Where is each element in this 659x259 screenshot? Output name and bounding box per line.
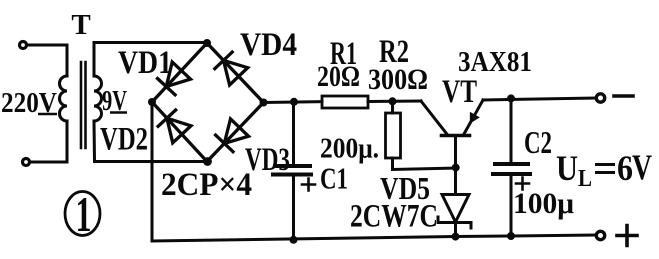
svg-text:1: 1 (76, 186, 92, 242)
zener diode VD5 (442, 195, 469, 223)
underline under V of 220V (38, 113, 57, 115)
diode VD3 (216, 119, 249, 152)
svg-text:T: T (71, 9, 90, 41)
C1 plus sign (302, 179, 315, 191)
resistor R1 (322, 96, 368, 108)
input terminal top-left (20, 42, 27, 49)
wire R2 top (391, 101, 394, 113)
node C2 bottom junction (507, 232, 515, 240)
input terminal bottom-left (23, 159, 30, 166)
diode VD2 (158, 110, 191, 143)
wire positive bottom rail (152, 235, 596, 241)
zener VD5 cathode bar (438, 217, 471, 228)
wire R1 to R2 node (368, 100, 421, 104)
wire secondary bottom to bridge bottom node (94, 121, 207, 162)
bridge arm bottom-right (207, 103, 264, 162)
plus sign (617, 226, 637, 246)
C2 plus sign (516, 178, 529, 190)
svg-text:300Ω: 300Ω (368, 63, 428, 96)
svg-text:6: 6 (617, 148, 633, 188)
svg-text:VT: VT (442, 74, 477, 110)
transformer T primary winding (60, 76, 68, 121)
wire input top to primary (27, 45, 67, 76)
wire C2 top (510, 98, 513, 164)
diode VD4 (215, 52, 248, 85)
wire negative rail bridge to R1 (264, 100, 323, 104)
wire bridge left node down to positive rail (151, 102, 154, 241)
svg-text:20Ω: 20Ω (317, 60, 360, 93)
node VD5 bottom junction (452, 233, 460, 241)
svg-text:VD4: VD4 (240, 27, 297, 63)
svg-text:C2: C2 (524, 124, 552, 160)
node bridge top (203, 39, 211, 47)
svg-text:V: V (632, 147, 652, 187)
wire collector to output (483, 98, 596, 100)
minus sign (614, 94, 633, 98)
wire primary bottom to input terminal (30, 121, 67, 162)
svg-text:U: U (556, 148, 578, 188)
transistor VT collector lead (464, 100, 483, 134)
svg-text:100μ: 100μ (513, 187, 574, 220)
node base R2 junction (452, 164, 460, 172)
diode VD1 (158, 62, 191, 95)
node bridge right (260, 99, 268, 107)
capacitor C2 (493, 164, 530, 174)
node R2 top junction (389, 97, 397, 105)
wire C2 bottom (510, 174, 513, 236)
transformer T secondary winding (94, 76, 102, 121)
node C1 bottom junction (290, 236, 298, 244)
wire VD5 to positive rail (454, 223, 457, 238)
node bridge bottom (203, 157, 212, 166)
bridge arm left-top (152, 43, 207, 102)
svg-text:VD2: VD2 (100, 122, 148, 158)
transformer core (81, 62, 86, 148)
svg-text:C1: C1 (320, 161, 348, 196)
node bridge left (148, 98, 156, 106)
output terminal negative (596, 94, 604, 102)
bridge arm left-bottom (152, 102, 207, 162)
svg-text:L: L (578, 166, 592, 192)
transistor VT emitter lead (421, 101, 447, 134)
node C1 top junction (290, 98, 298, 106)
svg-text:2CW7C: 2CW7C (350, 199, 438, 235)
wire C1 bottom (292, 175, 295, 241)
wire secondary top to bridge top node (94, 43, 207, 77)
wire base lead down (454, 136, 457, 195)
svg-text:VD1: VD1 (118, 45, 172, 81)
wire C1 top (292, 102, 295, 164)
node C2 top junction (507, 94, 515, 102)
circled figure number 1 (65, 192, 100, 236)
bridge arm top-right (207, 43, 264, 103)
resistor R2 (386, 113, 401, 158)
capacitor C1 (273, 166, 311, 175)
svg-text:2CP×4: 2CP×4 (161, 167, 252, 203)
underline under V of 9V (110, 111, 127, 113)
transistor VT base bar (442, 134, 470, 138)
output terminal positive (596, 231, 604, 239)
wire R2 bottom to base node (393, 158, 457, 170)
transistor VT collector arrow (470, 112, 480, 124)
